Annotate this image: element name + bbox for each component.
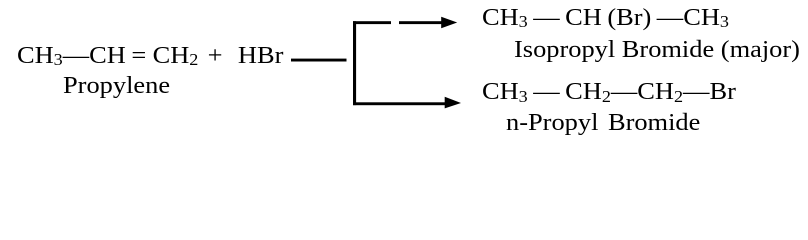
wire: top arm dash segment 2	[399, 21, 444, 24]
label Isopropyl Bromide (major)	[514, 38, 800, 62]
label n-Propyl Bromide	[506, 111, 700, 135]
product 2 formula CH3-CH2-CH2-Br	[482, 80, 736, 104]
wire: stub line from HBr	[291, 59, 347, 62]
arrowhead: top arrow	[441, 17, 457, 29]
wire: top arm dash segment 1	[353, 21, 391, 24]
reactant formula CH3-CH=CH2 + HBr	[17, 44, 283, 68]
wire: branch vertical line	[353, 21, 356, 105]
label Propylene	[63, 74, 170, 98]
product 1 formula CH3-CH(Br)-CH3	[482, 6, 729, 30]
arrowhead: bottom arrow	[445, 97, 461, 109]
wire: bottom arm line	[353, 102, 446, 105]
